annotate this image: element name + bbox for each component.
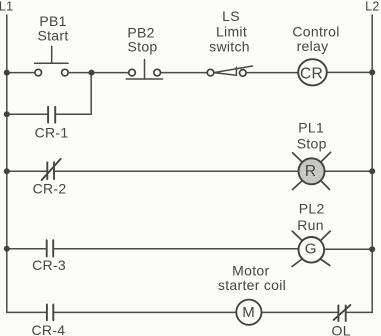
svg-text:CR-3: CR-3 [32,257,66,273]
svg-text:CR-1: CR-1 [35,124,69,140]
svg-text:CR: CR [300,66,323,83]
svg-text:Start: Start [37,27,68,43]
svg-text:LS: LS [222,8,240,24]
svg-text:R: R [305,163,317,180]
svg-text:Limit: Limit [216,24,247,40]
svg-text:CR-4: CR-4 [31,322,65,336]
svg-text:G: G [305,241,317,258]
svg-text:L2: L2 [365,0,380,13]
svg-text:Run: Run [297,217,324,233]
svg-text:relay: relay [297,38,329,54]
svg-text:PL2: PL2 [299,201,325,217]
svg-text:Stop: Stop [128,39,158,55]
svg-text:starter coil: starter coil [218,277,286,293]
svg-text:L1: L1 [0,0,13,13]
svg-text:OL: OL [332,322,351,336]
svg-text:M: M [242,304,255,321]
svg-text:Stop: Stop [297,135,327,151]
svg-text:PL1: PL1 [298,120,324,136]
svg-text:CR-2: CR-2 [33,180,67,196]
svg-text:switch: switch [209,39,250,55]
